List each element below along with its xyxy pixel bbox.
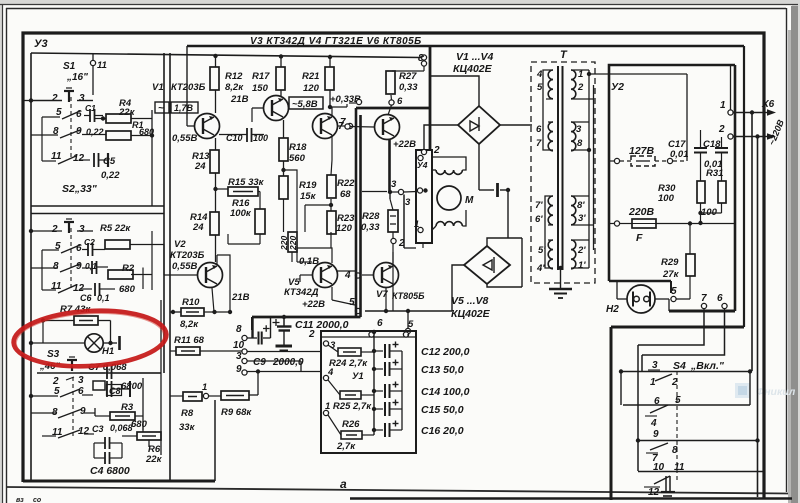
svg-text:9: 9 — [76, 261, 82, 272]
svg-text:8,2к: 8,2к — [225, 82, 244, 93]
V5 wires — [297, 261, 312, 263]
svg-text:V1 ...V4: V1 ...V4 — [456, 51, 494, 63]
voltage box ~5,8В — [289, 97, 323, 109]
C11 ground — [283, 331, 285, 346]
svg-text:7: 7 — [701, 293, 707, 304]
lamp H2 — [627, 285, 655, 313]
bridge right wire — [500, 124, 532, 126]
svg-text:S1: S1 — [63, 61, 76, 72]
resistor R13 24 — [210, 150, 219, 173]
transistor V5 — [313, 263, 338, 288]
node 3 У1 — [323, 341, 328, 346]
cap bank right bus — [401, 351, 403, 430]
left stub wires — [23, 100, 31, 102]
wire from node5 to У1 — [407, 334, 409, 337]
V7 wires — [362, 274, 374, 276]
svg-text:V3 КТ342Д V4 ГТ321Е V6 КТ80: V3 КТ342Д V4 ГТ321Е V6 КТ805Б — [250, 36, 422, 47]
svg-text:R31: R31 — [706, 168, 723, 179]
svg-text:12: 12 — [648, 487, 660, 498]
svg-text:2,7к: 2,7к — [336, 441, 356, 452]
svg-text:100к: 100к — [230, 208, 252, 219]
heavy horizontal y317 — [252, 316, 361, 319]
svg-text:R21: R21 — [302, 71, 319, 82]
svg-text:127В: 127В — [629, 145, 655, 157]
svg-text:21В: 21В — [231, 292, 250, 303]
vertical x143 lower — [142, 378, 144, 430]
secondary coil 2'-1' — [571, 240, 576, 269]
wire V4 emitter — [331, 135, 333, 160]
transistor V4 — [313, 114, 338, 139]
svg-text:24: 24 — [192, 222, 204, 233]
vertical x152 upper — [151, 110, 153, 206]
svg-text:4: 4 — [650, 418, 657, 429]
svg-text:11: 11 — [51, 151, 62, 162]
second top bus line — [187, 45, 744, 48]
svg-text:5: 5 — [349, 297, 355, 308]
svg-text:9: 9 — [236, 364, 242, 375]
capacitor С16 20,0 — [372, 428, 376, 432]
wire V6 to R28 — [389, 192, 391, 199]
svg-text:Фникил: Фникил — [756, 386, 796, 398]
svg-text:R28: R28 — [362, 211, 380, 222]
wire y74 — [589, 73, 687, 75]
inner box bottom y373 — [37, 372, 161, 374]
svg-text:2': 2' — [577, 245, 586, 256]
heavy box top y108 — [356, 107, 430, 110]
transistor V6 — [375, 115, 400, 140]
svg-text:150: 150 — [252, 83, 269, 94]
wire x270 drop — [270, 317, 272, 338]
svg-text:R17: R17 — [252, 71, 270, 82]
svg-text:С8: С8 — [109, 386, 121, 396]
svg-text:22к: 22к — [145, 454, 163, 465]
svg-text:6800: 6800 — [121, 381, 143, 392]
capacitor C9 2000,0 — [258, 332, 260, 345]
dashed link S3 group — [72, 377, 74, 436]
svg-text:R5 22к: R5 22к — [100, 223, 131, 234]
svg-text:3: 3 — [78, 375, 84, 386]
transformer right wires — [588, 70, 590, 268]
svg-text:0,22: 0,22 — [101, 170, 120, 181]
svg-text:С5: С5 — [103, 156, 116, 167]
supply rail y53 — [31, 53, 421, 58]
capacitor С15 50,0 — [372, 407, 376, 411]
contact bar — [118, 336, 121, 350]
svg-text:4: 4 — [327, 367, 334, 378]
transistor V1 — [195, 114, 220, 139]
bus x757 — [757, 137, 759, 498]
resistor R24 2,7к — [338, 348, 361, 356]
svg-text:8': 8' — [577, 200, 585, 211]
svg-text:С3: С3 — [92, 424, 104, 434]
svg-text:+22В: +22В — [393, 139, 416, 150]
wire V2 emitter — [212, 288, 214, 312]
svg-text:R19: R19 — [299, 180, 317, 191]
svg-text:4': 4' — [536, 263, 545, 274]
svg-text:6: 6 — [536, 124, 542, 135]
svg-text:0,22: 0,22 — [86, 127, 104, 137]
svg-text:1': 1' — [578, 260, 586, 271]
dashed link S1 — [70, 97, 72, 160]
svg-text:8: 8 — [236, 324, 242, 335]
bridge2 top path — [487, 238, 522, 246]
bridge top wire — [430, 76, 479, 106]
V2 base wire — [164, 274, 197, 276]
bridge left wire — [424, 125, 458, 150]
heavy staircase 744 — [611, 326, 744, 329]
secondary coil 3-8 — [571, 122, 576, 151]
transformer core — [557, 66, 559, 270]
wire node6 staircase — [642, 311, 725, 355]
motor M — [437, 186, 461, 210]
capacitor С12 200,0 — [372, 349, 376, 353]
svg-text:3: 3 — [391, 179, 397, 190]
svg-text:680: 680 — [119, 284, 136, 295]
connector node 1 — [418, 227, 423, 232]
node 2 — [392, 232, 394, 238]
svg-text:R27: R27 — [399, 71, 417, 82]
svg-text:R18: R18 — [289, 142, 307, 153]
svg-text:560: 560 — [289, 153, 306, 164]
svg-text:+22В: +22В — [302, 299, 325, 310]
svg-text:3: 3 — [652, 360, 658, 371]
capacitor plate symbol — [479, 189, 494, 191]
wire node1 up — [730, 65, 732, 110]
bridge2 left path — [452, 265, 464, 311]
svg-text:3': 3' — [578, 213, 586, 224]
svg-text:8: 8 — [577, 138, 583, 149]
motor stator coil top — [436, 170, 462, 174]
svg-text:12: 12 — [78, 426, 90, 437]
capacitor C4 6800 — [104, 452, 106, 464]
node 1 У1 — [323, 410, 328, 415]
voltage box 1,7В — [171, 102, 198, 113]
wire V1 base — [186, 120, 188, 126]
secondary coil 8'-3' — [571, 196, 576, 225]
svg-text:S3: S3 — [47, 349, 60, 360]
svg-text:R26: R26 — [342, 419, 360, 430]
svg-text:7: 7 — [536, 138, 542, 149]
svg-text:вз: вз — [16, 497, 24, 503]
capacitor С14 100,0 — [372, 389, 376, 393]
svg-text:2: 2 — [51, 93, 58, 104]
svg-text:3: 3 — [79, 224, 85, 235]
svg-text:R11 68: R11 68 — [174, 335, 205, 346]
svg-text:1: 1 — [578, 69, 583, 80]
heavy segment y311 — [669, 310, 735, 313]
svg-text:С14 100,0: С14 100,0 — [421, 386, 470, 398]
resistor R25 2,7к — [340, 391, 361, 399]
svg-text:С12 200,0: С12 200,0 — [421, 346, 470, 358]
watermark — [735, 383, 750, 398]
svg-text:6: 6 — [397, 96, 403, 107]
switch box right edge x164 — [163, 53, 165, 373]
transformer dashed box — [531, 62, 595, 283]
resistor R8 33к — [183, 392, 202, 401]
wire R14 down — [215, 235, 217, 262]
svg-text:0,33: 0,33 — [361, 222, 380, 233]
svg-text:0,55В: 0,55В — [172, 261, 197, 272]
vertical x161 lower — [160, 300, 162, 455]
svg-text:со: со — [33, 497, 42, 503]
svg-text:У3: У3 — [34, 38, 48, 50]
svg-text:R10: R10 — [182, 297, 200, 308]
svg-text:2000,0: 2000,0 — [272, 357, 304, 368]
amp box left edge x170 — [169, 53, 171, 481]
switch box left edge — [30, 53, 32, 481]
ground under transformer — [558, 266, 562, 270]
heavy vertical x252 — [251, 317, 253, 330]
connector box — [416, 150, 432, 243]
H2 wires — [616, 281, 618, 299]
svg-text:9: 9 — [653, 429, 659, 440]
motor stator coil bottom — [436, 222, 462, 226]
svg-text:„Вкл.": „Вкл." — [690, 360, 725, 372]
heavy double vertical x356 — [355, 108, 358, 317]
diode bridge V1-V4 — [458, 106, 500, 144]
svg-text:С2: С2 — [84, 237, 95, 247]
svg-text:КТ203Б: КТ203Б — [170, 250, 205, 261]
svg-text:1: 1 — [202, 382, 207, 393]
svg-text:R9 68к: R9 68к — [221, 407, 252, 418]
svg-text:С15 50,0: С15 50,0 — [421, 404, 464, 416]
svg-text:С13 50,0: С13 50,0 — [421, 364, 464, 376]
svg-text:12: 12 — [73, 153, 85, 164]
svg-text:У4: У4 — [417, 160, 428, 170]
svg-text:100: 100 — [658, 193, 675, 204]
bus x752 — [751, 113, 753, 372]
svg-text:V1: V1 — [152, 82, 164, 93]
svg-text:1: 1 — [414, 219, 419, 230]
svg-text:0,01: 0,01 — [670, 149, 689, 160]
svg-text:С6: С6 — [80, 293, 92, 303]
resistor R27 0,33 — [386, 71, 395, 94]
resistor R22 68 — [327, 175, 336, 198]
svg-text:3: 3 — [236, 351, 242, 362]
vertical x215 bottom — [214, 400, 216, 481]
svg-text:V5 ...V8: V5 ...V8 — [451, 295, 489, 307]
bridge2 bottom path — [487, 284, 522, 287]
svg-text:27к: 27к — [662, 269, 680, 280]
resistor R9 68к — [221, 391, 249, 400]
svg-text:0,33: 0,33 — [399, 82, 418, 93]
svg-text:1 R25 2,7к: 1 R25 2,7к — [325, 401, 372, 412]
heavy vertical x430 — [429, 46, 432, 150]
transistor V3 — [264, 96, 289, 121]
svg-text:8,2к: 8,2к — [180, 319, 199, 330]
svg-text:680: 680 — [131, 419, 148, 430]
heavy drop x252 — [251, 317, 253, 338]
svg-text:КТ203Б: КТ203Б — [171, 82, 206, 93]
svg-text:У1: У1 — [352, 371, 364, 382]
svg-text:КТ342Д: КТ342Д — [284, 287, 319, 298]
svg-text:Х6: Х6 — [761, 99, 775, 110]
svg-text:5: 5 — [537, 82, 543, 93]
svg-text:1: 1 — [650, 377, 656, 388]
svg-text:„16": „16" — [66, 72, 88, 83]
left wire x42 S2 — [41, 250, 43, 290]
wire x404 down — [403, 195, 405, 249]
svg-text:С16 20,0: С16 20,0 — [421, 425, 464, 437]
У1 inner top — [321, 336, 416, 338]
svg-text:3: 3 — [405, 197, 411, 208]
ac box — [155, 102, 169, 113]
resistor R20 — [288, 232, 297, 252]
transistor V7 — [374, 263, 399, 288]
svg-text:6': 6' — [535, 214, 543, 225]
svg-text:0,1: 0,1 — [97, 293, 110, 303]
capacitor С13 50,0 — [372, 367, 376, 371]
svg-text:5: 5 — [56, 107, 62, 118]
svg-text:а: а — [340, 477, 347, 491]
svg-text:~: ~ — [158, 103, 164, 114]
svg-text:2: 2 — [718, 124, 725, 135]
svg-text:КЦ402Е: КЦ402Е — [453, 63, 493, 75]
svg-text:1,7В: 1,7В — [174, 103, 194, 113]
resistor R23 120 — [327, 211, 336, 234]
svg-text:R24 2,7к: R24 2,7к — [329, 358, 368, 369]
svg-text:S2„33": S2„33" — [62, 183, 98, 195]
node 1 — [203, 393, 208, 398]
primary coil 4-5 — [548, 70, 553, 99]
right bus vertical x744 — [743, 46, 745, 327]
resistor R21 120 — [325, 67, 334, 90]
transformer left wires — [543, 70, 553, 150]
svg-text:7': 7' — [535, 200, 543, 211]
wire lamp row — [31, 342, 85, 344]
dashed link S2 — [70, 228, 72, 289]
feedback wire x187 — [186, 46, 188, 120]
svg-text:68: 68 — [340, 189, 351, 200]
wire y311 center — [365, 310, 452, 312]
switch box bottom — [23, 480, 215, 483]
svg-text:~5,8В: ~5,8В — [292, 99, 318, 110]
svg-text:3: 3 — [576, 124, 582, 135]
svg-text:0,068: 0,068 — [110, 423, 133, 433]
capacitor C6 — [94, 283, 96, 296]
svg-text:6: 6 — [76, 243, 82, 254]
svg-text:220В: 220В — [628, 206, 655, 218]
svg-text:С9: С9 — [253, 357, 266, 368]
resistor R6 22к — [137, 432, 161, 440]
node 4 У1 — [323, 375, 328, 380]
svg-text:11: 11 — [97, 60, 107, 71]
svg-text:8: 8 — [53, 261, 59, 272]
svg-text:R22: R22 — [337, 178, 355, 189]
capacitor C5 — [93, 153, 95, 167]
svg-text:У2: У2 — [611, 81, 624, 93]
resistor R19 15к — [279, 176, 288, 199]
box У2 — [609, 65, 735, 281]
svg-text:2: 2 — [433, 145, 440, 156]
svg-text:4: 4 — [344, 270, 351, 281]
resistor R14 24 — [210, 212, 219, 235]
resistor R12 — [210, 67, 219, 90]
svg-text:R12: R12 — [225, 71, 243, 82]
diode bridge V5-V8 — [464, 246, 510, 284]
C11 top wire — [283, 317, 285, 327]
primary coil 6-7 — [548, 122, 553, 151]
svg-text:М: М — [465, 195, 474, 206]
capacitor C8 — [93, 381, 105, 390]
secondary coil 1-2 — [571, 70, 576, 99]
bridge2 right path — [521, 238, 523, 287]
node 11 top — [90, 60, 95, 65]
svg-text:Н1: Н1 — [102, 346, 114, 357]
svg-text:0,55В: 0,55В — [172, 133, 197, 144]
wire V6 emitter — [388, 140, 391, 193]
svg-text:6: 6 — [76, 109, 82, 120]
vertical x638 — [637, 345, 639, 471]
bridge bottom wire — [478, 144, 480, 190]
divider lines S2 section — [31, 205, 164, 207]
svg-text:5: 5 — [54, 386, 60, 397]
S4 dashed link — [676, 371, 678, 480]
resistor R17 150 — [276, 67, 285, 90]
S4 right vertical x750 — [749, 372, 751, 406]
svg-text:S4: S4 — [673, 360, 686, 372]
box У1 — [321, 331, 416, 453]
transistor V2 — [198, 263, 223, 288]
R30 R31 bottom wires — [700, 203, 702, 223]
svg-text:33к: 33к — [179, 422, 196, 433]
svg-text:24: 24 — [194, 161, 206, 172]
svg-text:F: F — [636, 232, 643, 244]
heavy vertical x611 — [610, 327, 613, 500]
svg-text:R8: R8 — [181, 408, 194, 419]
svg-text:2: 2 — [577, 82, 584, 93]
svg-text:120: 120 — [336, 223, 353, 234]
connector node 3 — [417, 188, 422, 193]
vertical x43 — [42, 321, 44, 344]
svg-text:С11 2000,0: С11 2000,0 — [295, 319, 349, 331]
red ellipse annotation — [12, 307, 168, 370]
svg-text:6: 6 — [377, 318, 383, 329]
svg-text:V2: V2 — [174, 239, 186, 250]
svg-text:22к: 22к — [118, 107, 136, 118]
node 3 pair — [388, 190, 392, 194]
svg-text:21В: 21В — [230, 94, 249, 105]
S4 left vertical — [620, 372, 622, 406]
svg-text:R29: R29 — [661, 257, 679, 268]
svg-text:КТ805Б: КТ805Б — [392, 291, 425, 301]
wire x687 up — [686, 74, 688, 161]
motor wires — [422, 243, 424, 248]
svg-text:2: 2 — [51, 224, 58, 235]
svg-text:С4 6800: С4 6800 — [90, 465, 130, 477]
resistor R18 560 — [279, 138, 288, 161]
svg-text:9: 9 — [80, 406, 86, 417]
lamp H1 — [85, 334, 103, 352]
primary coil 5'-4' — [548, 240, 553, 269]
svg-text:4: 4 — [536, 69, 543, 80]
svg-text:КЦ402Е: КЦ402Е — [451, 308, 491, 320]
wire x508 down — [507, 190, 509, 238]
wire node7 staircase — [638, 311, 704, 345]
wire V4 collector — [331, 107, 333, 117]
wire to amp — [151, 231, 153, 290]
wire x143 S2 — [142, 268, 144, 290]
cap bank left bus — [373, 337, 375, 435]
svg-text:15к: 15к — [300, 191, 317, 202]
svg-text:0,1: 0,1 — [85, 261, 97, 271]
svg-text:6: 6 — [717, 293, 723, 304]
svg-text:1: 1 — [720, 100, 726, 111]
primary coil 7'-6' — [548, 196, 553, 225]
svg-text:Н2: Н2 — [606, 304, 619, 315]
svg-text:120: 120 — [303, 83, 320, 94]
V2 collector wire — [216, 255, 218, 265]
